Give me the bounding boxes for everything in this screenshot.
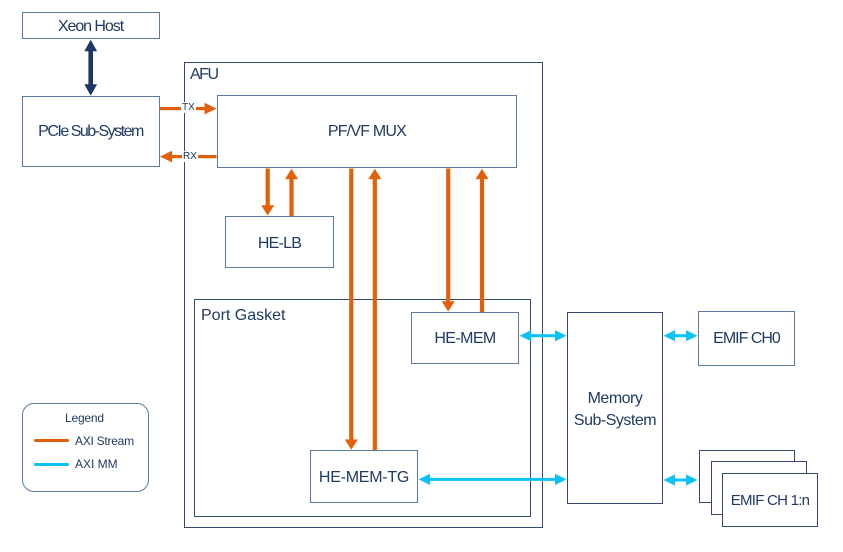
box EMIF CH 1:n back of stack <box>699 450 795 503</box>
box HE-LB <box>225 216 334 268</box>
wire HE-MEM up to PF/VF MUX (AXI Stream) <box>476 169 489 312</box>
label TX <box>181 102 196 113</box>
label AFU <box>190 66 218 84</box>
legend box <box>22 403 149 492</box>
box Xeon Host <box>22 12 160 39</box>
wire Memory Sub-System to EMIF CH0 (AXI MM double arrow) <box>664 330 698 341</box>
legend AXI MM key line <box>34 463 69 466</box>
wire RX: PF/VF MUX to PCIe (AXI Stream) <box>160 151 217 163</box>
wire HE-MEM-TG up to PF/VF MUX (AXI Stream) <box>368 169 381 450</box>
wire Xeon Host to PCIe Sub-System (double-headed arrow) <box>84 40 97 96</box>
wire HE-MEM-TG to Memory Sub-System (AXI MM double arrow) <box>419 474 567 485</box>
box Port Gasket <box>194 299 531 517</box>
wire HE-LB up to PF/VF MUX (AXI Stream) <box>285 169 298 216</box>
box EMIF CH 1:n front of stack <box>722 473 818 526</box>
box HE-MEM-TG <box>310 450 418 503</box>
legend label AXI MM <box>75 457 118 471</box>
wire HE-MEM to Memory Sub-System (AXI MM double arrow) <box>520 330 567 341</box>
box EMIF CH 1:n middle of stack <box>711 461 807 515</box>
box AFU (outer container) <box>184 62 543 528</box>
wire PF/VF MUX down to HE-LB (AXI Stream) <box>261 169 274 216</box>
box EMIF CH0 <box>698 311 795 366</box>
box PF/VF MUX <box>217 95 517 168</box>
label RX <box>182 151 198 162</box>
legend AXI Stream key line <box>34 439 69 442</box>
box Memory Sub-System <box>567 312 663 505</box>
legend title <box>65 411 104 425</box>
label Port Gasket <box>201 307 285 325</box>
wire PF/VF MUX down to HE-MEM (AXI Stream) <box>442 169 455 312</box>
box HE-MEM <box>411 312 519 365</box>
legend label AXI Stream <box>75 434 134 448</box>
wire TX: PCIe to PF/VF MUX (AXI Stream) <box>160 103 217 115</box>
box PCIe Sub-System <box>22 96 160 167</box>
wire PF/VF MUX down to HE-MEM-TG (AXI Stream) <box>345 169 358 450</box>
wire Memory Sub-System to EMIF CH 1:n (AXI MM double arrow) <box>664 474 698 485</box>
